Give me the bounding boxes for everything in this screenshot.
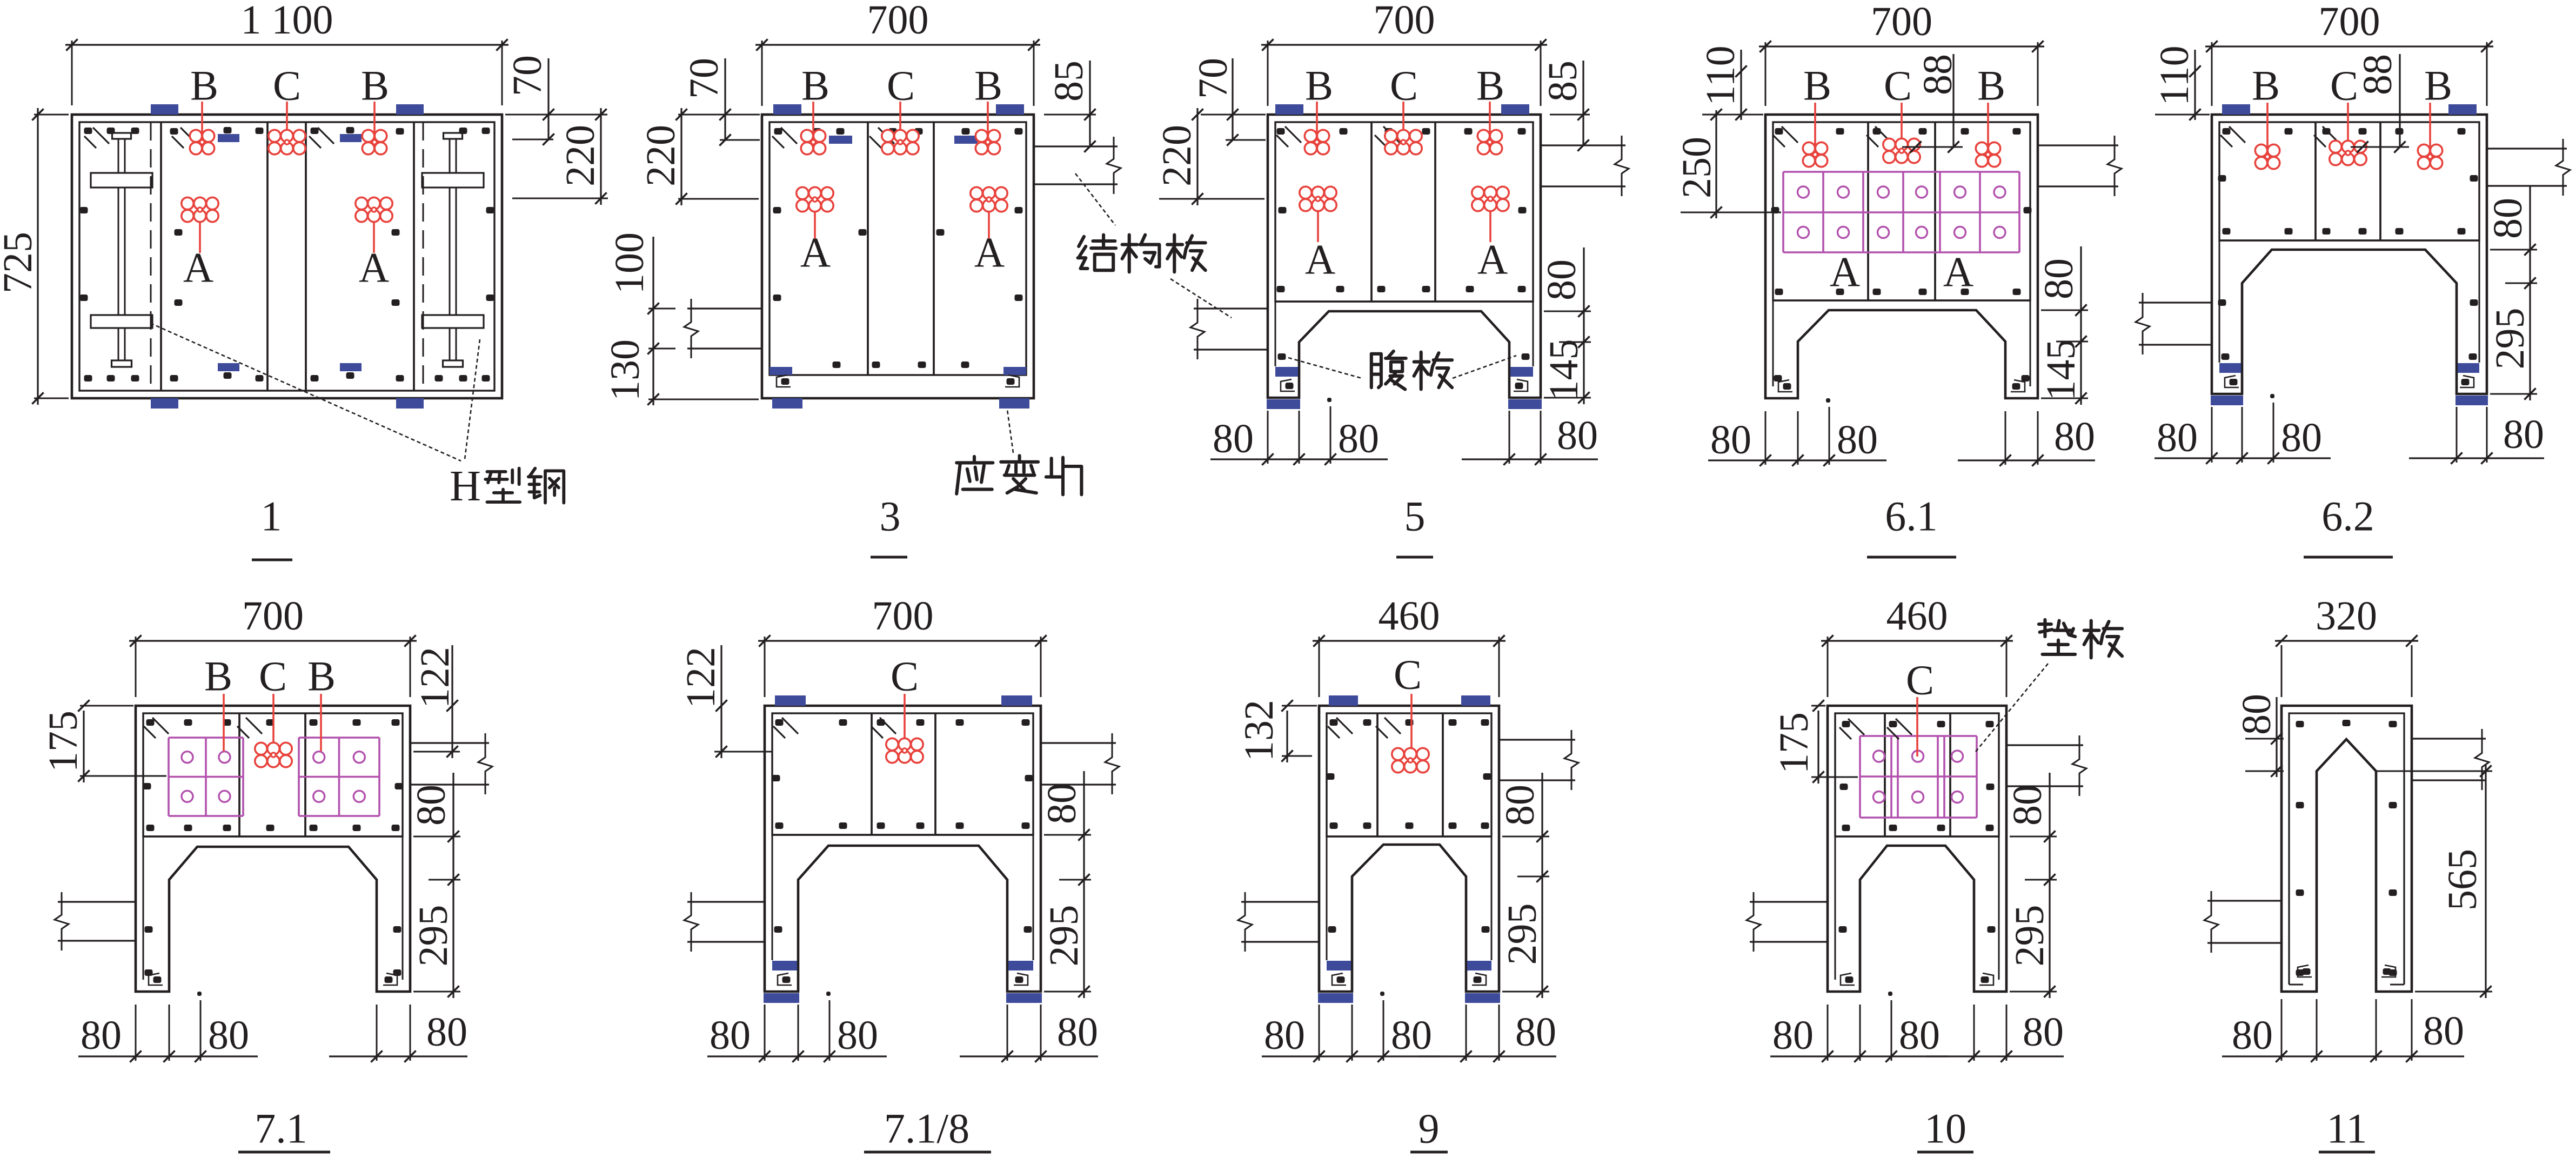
label web plate (腹板) with leaders	[1370, 354, 1373, 387]
section 9: leg rebar hooks	[1332, 973, 1346, 985]
section 1: top dimension 1 100	[71, 41, 73, 105]
svg-text:10: 10	[1924, 1105, 1966, 1152]
section 7.1/8: left structural plate stub	[687, 901, 765, 902]
svg-text:A: A	[183, 244, 213, 291]
section 5: right structural plate stub	[1541, 144, 1625, 146]
section 3: bottom corner pads with hooks	[770, 367, 792, 375]
section 11: left structural plate stub	[2207, 900, 2281, 901]
svg-text:80: 80	[2023, 1009, 2064, 1055]
svg-text:565: 565	[2440, 849, 2485, 911]
section 9: inner rectangle	[1327, 713, 1491, 836]
section 1: right dimension 220	[512, 198, 608, 199]
section 5: left dimension 220	[1159, 198, 1264, 200]
svg-text:B: B	[204, 653, 232, 700]
section 7.1: right dimension 122	[413, 751, 460, 753]
svg-text:700: 700	[872, 593, 934, 639]
svg-text:80: 80	[81, 1013, 122, 1058]
section 5: right dimension 145	[1544, 397, 1591, 399]
section 7.1/8: leg inner offset lines	[772, 835, 773, 960]
section 9: rebar dots	[1330, 719, 1338, 726]
section 6.2: right structural plate stub	[2487, 148, 2567, 149]
svg-text:B: B	[1476, 62, 1504, 109]
svg-text:70: 70	[681, 58, 727, 99]
section 1: rebar dots	[84, 128, 92, 134]
svg-text:700: 700	[242, 593, 304, 639]
section 3: outer rectangle	[762, 115, 1034, 398]
section 3: rosette B left	[812, 102, 814, 142]
svg-text:B: B	[190, 62, 218, 109]
section 6.1: bottom dimension 80 labels	[1708, 459, 1886, 461]
section 10: corner slash ticks	[1848, 719, 1864, 735]
section 1: H-beam left	[112, 133, 131, 139]
section 6.1: left dimension 250	[1681, 212, 1781, 213]
section 11: top dimension 320	[2281, 645, 2283, 697]
section 11: outer U outline with pointed arch	[2281, 706, 2412, 992]
section 7.1/8: bottom extension lines	[764, 1005, 766, 1061]
svg-text:80: 80	[2485, 198, 2531, 239]
svg-text:80: 80	[2054, 414, 2095, 459]
svg-text:295: 295	[2007, 905, 2052, 967]
section 6.1: backing plate grid (magenta)	[1782, 172, 1784, 252]
svg-text:110: 110	[1698, 45, 1743, 105]
section 1: strain rosette C	[286, 102, 288, 142]
section 7.1: bottom dimension 80 labels	[78, 1055, 258, 1057]
section 7.1/8: top dimension 700	[764, 637, 766, 697]
section 5: top dimension 700	[1267, 41, 1269, 106]
svg-text:220: 220	[638, 125, 684, 186]
svg-text:C: C	[1390, 62, 1418, 109]
section 10: backing plate grid 3x2 (magenta)	[1859, 736, 1861, 818]
svg-text:B: B	[801, 62, 829, 109]
svg-text:250: 250	[1674, 137, 1719, 198]
section 6.1: rosette B left	[1814, 103, 1816, 155]
svg-text:A: A	[800, 229, 831, 276]
label strain gauge (应变片) with leader	[973, 457, 976, 461]
svg-text:80: 80	[1338, 416, 1379, 461]
section 3: inner small pads	[829, 136, 852, 144]
svg-text:70: 70	[1190, 58, 1236, 99]
section 7.1: rebar dots	[146, 719, 155, 726]
svg-text:B: B	[2252, 62, 2280, 109]
svg-text:80: 80	[1837, 417, 1878, 463]
section 6.1: left dimension 110	[1702, 114, 1763, 116]
section 9: rosette C	[1410, 694, 1413, 760]
section 5: rosette B right	[1489, 102, 1491, 142]
section 5: bottom extension lines	[1267, 411, 1269, 464]
svg-text:295: 295	[2487, 308, 2533, 370]
section 3: cell dividers	[867, 122, 869, 375]
svg-text:9: 9	[1419, 1105, 1440, 1152]
section 7.1/8: slab bottom line	[772, 834, 1033, 835]
section 3: left dimensions 100 and 130	[652, 237, 654, 405]
svg-text:460: 460	[1379, 593, 1440, 639]
section 6.1: rosette C	[1901, 103, 1903, 151]
svg-text:132: 132	[1236, 700, 1282, 761]
section 5: left structural plate stub	[1194, 307, 1268, 309]
section 6.1: corner slash ticks	[1782, 126, 1798, 143]
section 10: bottom extension lines	[1827, 1005, 1829, 1061]
section 1: left dimension 725	[34, 114, 69, 116]
section 6.2: slab bottom line	[2219, 239, 2479, 241]
section 11: right structural plate stub	[2412, 738, 2486, 739]
section 9: bottom extension lines	[1319, 1005, 1320, 1061]
section 11: bottom extension lines	[2281, 999, 2283, 1061]
section 7.1: top dimension 700	[135, 637, 137, 697]
svg-text:B: B	[2424, 62, 2452, 109]
section 3: left dimension 220	[678, 198, 759, 200]
svg-text:7.1: 7.1	[255, 1105, 307, 1152]
section 11: leg rebar hooks	[2298, 965, 2312, 977]
section 6.1: right dimension 145	[2041, 398, 2088, 399]
svg-text:80: 80	[1391, 1013, 1432, 1058]
section 7.1/8: right dimension 295	[1044, 991, 1091, 993]
section 7.1: right dimension 80	[413, 836, 460, 838]
section 7.1: right structural plate stub	[410, 742, 489, 744]
section 3: top bearing pads	[773, 104, 801, 115]
svg-text:100: 100	[607, 232, 652, 294]
section 7.1/8: left dimension 122	[714, 751, 772, 753]
svg-text:5: 5	[1404, 493, 1426, 540]
svg-text:A: A	[1830, 249, 1860, 296]
svg-text:6.2: 6.2	[2321, 493, 2374, 540]
section 7.1: rosette C	[272, 694, 275, 755]
svg-text:80: 80	[1710, 417, 1751, 463]
section 7.1: right dimension 295	[413, 991, 460, 993]
section 7.1: corner slash ticks	[152, 718, 169, 734]
svg-text:B: B	[307, 653, 336, 700]
section 3: right structural plate stub	[1034, 145, 1118, 147]
svg-text:80: 80	[2036, 258, 2082, 299]
svg-text:145: 145	[2038, 339, 2084, 401]
section 6.2: dimension 88 to rosette C	[2399, 54, 2400, 147]
svg-text:295: 295	[411, 905, 456, 967]
svg-text:C: C	[2330, 62, 2358, 109]
svg-text:700: 700	[1871, 0, 1932, 44]
svg-text:A: A	[1305, 236, 1335, 283]
section 9: leg bearing pads	[1327, 961, 1351, 970]
section 1: slab cell divider lines	[160, 122, 162, 391]
section 6.2: leg inner offset lines	[2219, 240, 2220, 363]
section 3: corner slash ticks	[781, 128, 797, 144]
section 7.1: outer U outline	[136, 706, 410, 992]
section 7.1/8: rebar dots	[775, 719, 784, 726]
svg-text:C: C	[273, 62, 301, 109]
section 1: inner rectangle	[79, 122, 494, 391]
section 6.2: rosette B left	[2266, 103, 2269, 157]
section 7.1/8: outer U outline	[765, 706, 1041, 992]
section 7.1: bottom extension lines	[135, 1005, 137, 1061]
section 1: bottom bearing pads	[151, 398, 178, 409]
section 9: corner slash ticks	[1336, 718, 1353, 734]
svg-text:C: C	[891, 653, 919, 700]
svg-text:220: 220	[1154, 125, 1200, 186]
section 6.1: inner rectangle	[1773, 122, 2030, 300]
section 6.1: outer U outline	[1765, 115, 2038, 398]
section 11: right dimension 565	[2376, 771, 2492, 772]
section 3: left dimension 70	[678, 114, 760, 116]
section 9: bottom dimension 80 labels	[1262, 1055, 1441, 1057]
svg-text:220: 220	[558, 125, 603, 186]
section 3: right dimension 85	[1044, 114, 1096, 116]
svg-text:C: C	[1906, 657, 1934, 704]
svg-text:80: 80	[1497, 785, 1543, 826]
section 5: rebar dots	[1277, 128, 1285, 135]
svg-text:80: 80	[2423, 1008, 2464, 1054]
svg-text:700: 700	[867, 0, 929, 43]
section 7.1/8: rosette C	[904, 694, 906, 751]
section 6.1: slab bottom line	[1773, 299, 2030, 301]
section 5: right dimension 85	[1550, 114, 1590, 116]
section 9: right dimension 295	[1502, 991, 1549, 993]
section 9: top dimension 460	[1319, 637, 1320, 697]
section 5: outer U outline	[1268, 115, 1541, 398]
section 6.2: outer U outline	[2212, 115, 2487, 394]
svg-text:80: 80	[2234, 694, 2279, 735]
section 1: strain rosette A left	[199, 210, 201, 253]
svg-text:A: A	[1477, 236, 1508, 283]
svg-text:110: 110	[2152, 45, 2197, 105]
svg-text:122: 122	[678, 647, 724, 708]
section 6.2: inner rectangle	[2219, 122, 2479, 240]
section 5: slab bottom line	[1275, 300, 1533, 302]
section 7.1: left dimension 175	[80, 705, 133, 707]
svg-text:88: 88	[2355, 54, 2400, 95]
section 1: strain rosette B left	[201, 102, 203, 142]
section 5: leg inner offset lines	[1275, 302, 1276, 366]
section 6.2: rosette C	[2347, 103, 2349, 153]
svg-text:80: 80	[2281, 415, 2322, 460]
svg-text:80: 80	[208, 1013, 249, 1058]
section 3: top dimension 700	[761, 41, 763, 106]
section 7.1: leg inner offset lines	[143, 836, 144, 980]
section 10: outer U outline	[1828, 706, 2006, 992]
section 9: outer U outline	[1319, 706, 1499, 992]
section 5: right dimension 80	[1544, 311, 1591, 312]
section 10: right dimension 295	[2010, 991, 2057, 993]
section 10: leg inner offset lines	[1835, 836, 1836, 980]
svg-text:80: 80	[409, 785, 454, 826]
svg-text:80: 80	[710, 1013, 751, 1058]
svg-text:C: C	[1884, 62, 1912, 109]
svg-text:80: 80	[426, 1009, 467, 1055]
section 10: right structural plate stub	[2006, 744, 2083, 746]
svg-text:C: C	[259, 653, 287, 700]
svg-text:80: 80	[1264, 1013, 1305, 1058]
section 7.1: inner rectangle	[143, 713, 403, 836]
section 10: slab bottom line	[1835, 835, 1999, 837]
section 6.2: corner slash ticks	[2229, 126, 2245, 143]
section 7.1/8: cell dividers	[871, 713, 873, 835]
svg-text:295: 295	[1500, 903, 1545, 965]
svg-text:85: 85	[1540, 61, 1585, 102]
section 10: bottom dimension 80 labels	[1770, 1055, 1949, 1057]
svg-text:B: B	[974, 62, 1002, 109]
section 9: cell dividers	[1376, 713, 1379, 836]
section 1: top bearing pads	[151, 104, 178, 115]
section 6.2: left dimension 110	[2155, 114, 2210, 116]
section 9: leg inner offset lines	[1326, 836, 1328, 960]
section 6.2: leg rebar hooks	[2225, 376, 2239, 387]
svg-text:320: 320	[2316, 593, 2377, 639]
section 3: inner rectangle	[770, 122, 1026, 375]
section 5: leg rebar hooks	[1281, 379, 1295, 391]
section 7.1: backing plate grids 2x2 (magenta)	[168, 738, 170, 816]
section 10: inner rectangle	[1835, 713, 1999, 836]
svg-text:80: 80	[1515, 1009, 1556, 1055]
svg-text:B: B	[1305, 62, 1333, 109]
section 3: rosette C	[899, 102, 901, 142]
section 9: slab bottom line	[1327, 835, 1491, 837]
section 3: rosette A left	[814, 199, 816, 242]
section 10: rebar dots	[1842, 721, 1850, 727]
section 6.2: bottom dimension 80 labels	[2155, 457, 2331, 459]
section 6.1: dimension 88 to rosette C	[1952, 54, 1954, 147]
svg-text:80: 80	[1772, 1013, 1814, 1058]
svg-text:C: C	[1394, 651, 1422, 698]
section 6.1: cell dividers	[1867, 122, 1869, 300]
section 6.1: leg inner offset lines	[1772, 300, 1774, 386]
section 7.1/8: inner rectangle	[772, 713, 1033, 835]
section 7.1/8: leg rebar hooks	[778, 973, 792, 985]
section 10: cell dividers	[1884, 713, 1886, 836]
section 5: rosette C	[1402, 102, 1404, 142]
section 10: left structural plate stub	[1750, 901, 1828, 902]
section 6.2: rebar dots	[2223, 128, 2231, 135]
section 6.2: top dimension 700	[2211, 42, 2213, 106]
section 6.1: leg rebar hooks	[1778, 380, 1792, 392]
svg-text:85: 85	[1046, 61, 1092, 102]
section 9: left dimension 132	[1282, 705, 1317, 707]
section 5: left dimension 70	[1201, 114, 1266, 116]
svg-text:A: A	[359, 244, 389, 291]
section 5: top bearing pads	[1275, 104, 1303, 115]
section 6.2: top bearing pads	[2222, 104, 2250, 115]
section 6.2: bottom extension lines	[2211, 407, 2213, 463]
section 6.1: bottom extension lines	[1765, 411, 1767, 465]
section 9: right structural plate stub	[1499, 739, 1575, 740]
svg-text:7.1/8: 7.1/8	[884, 1105, 969, 1152]
section 7.1: red leaders to grid circles	[223, 694, 225, 751]
section 7.1: cell dividers	[238, 713, 240, 836]
section 11: left dimension 80	[2245, 738, 2284, 740]
svg-text:1: 1	[261, 493, 282, 540]
section 7.1/8: bottom dimension 80 labels	[707, 1055, 887, 1057]
svg-text:80: 80	[2503, 412, 2544, 457]
section 11: rebar dots	[2296, 721, 2304, 727]
section 1: inner small pads top	[218, 134, 239, 142]
svg-text:C: C	[887, 62, 915, 109]
svg-text:700: 700	[2319, 0, 2380, 44]
section 6.2: right dimension 295	[2490, 393, 2537, 395]
svg-text:B: B	[361, 62, 389, 109]
svg-text:3: 3	[880, 493, 901, 540]
svg-text:725: 725	[0, 232, 41, 293]
section 3: bottom bearing pads	[772, 398, 802, 409]
section 6.2: left structural plate stub	[2139, 302, 2212, 303]
section 1: corner slash ticks	[93, 128, 109, 144]
svg-text:80: 80	[1899, 1013, 1940, 1058]
svg-text:80: 80	[1539, 259, 1584, 300]
section 1: hidden flange dashed lines	[150, 122, 152, 391]
section 6.1: right dimension 80	[2041, 310, 2088, 311]
section 1: H-beam right	[444, 133, 463, 139]
section 6.1: top dimension 700	[1765, 42, 1767, 106]
section 10: top dimension 460	[1827, 637, 1829, 697]
svg-text:80: 80	[1557, 413, 1598, 458]
section 11: inner border lines	[2289, 713, 2404, 985]
section 6.1: right structural plate stub	[2038, 144, 2118, 146]
section 6.1: rebar dots	[1775, 128, 1783, 135]
section 7.1/8: right structural plate stub	[1041, 742, 1116, 744]
svg-text:6.1: 6.1	[1885, 493, 1938, 540]
section 1: inner small pads bottom	[218, 363, 239, 371]
svg-text:70: 70	[505, 55, 550, 96]
section 7.1: leg rebar hooks	[149, 973, 163, 985]
svg-text:80: 80	[1057, 1009, 1098, 1055]
section 6.2: rosette B right	[2429, 103, 2431, 157]
svg-text:175: 175	[1771, 712, 1817, 774]
svg-text:B: B	[1803, 62, 1831, 109]
svg-text:122: 122	[412, 647, 458, 708]
section 10: right dimension 80	[2010, 836, 2057, 838]
section 7.1/8: leg bearing pads	[772, 961, 797, 970]
section 10: red leader to grid circle	[1916, 697, 1918, 757]
svg-text:H: H	[450, 463, 481, 510]
section 5: rosette A left	[1317, 199, 1319, 242]
svg-text:B: B	[1977, 62, 2005, 109]
svg-text:88: 88	[1915, 54, 1961, 95]
section 3: left structural plate stub	[687, 307, 762, 309]
section 6.2: cell dividers	[2314, 122, 2317, 240]
svg-text:80: 80	[2157, 415, 2198, 460]
svg-text:A: A	[1943, 249, 1973, 296]
section 7.1/8: right dimension 80	[1044, 834, 1091, 836]
svg-text:80: 80	[837, 1013, 878, 1058]
svg-text:80: 80	[2232, 1013, 2273, 1058]
label structural plate (结构板) with leaders	[1079, 237, 1084, 246]
section 1: strain rosette B right	[373, 102, 376, 142]
section 7.1: left structural plate stub	[58, 901, 136, 902]
section 1: strain rosette A right	[373, 210, 375, 253]
section 9: left structural plate stub	[1241, 901, 1319, 902]
section 5: inner rectangle	[1275, 122, 1533, 302]
svg-text:80: 80	[1039, 783, 1085, 824]
section 3: rosette B right	[987, 102, 989, 142]
svg-text:80: 80	[2005, 785, 2050, 826]
svg-text:80: 80	[1213, 416, 1254, 461]
section 5: bottom dimension 80 labels	[1210, 458, 1388, 460]
section 9: top bearing pads	[1329, 695, 1358, 706]
section 1: outer rectangle	[72, 115, 502, 398]
section 5: leg bearing pads	[1275, 367, 1298, 377]
section 6.2: right dimension 80	[2490, 249, 2537, 251]
svg-text:1 100: 1 100	[241, 0, 333, 43]
section 3: rebar dots	[774, 128, 782, 135]
section 7.1/8: corner slash ticks	[782, 718, 798, 734]
section 5: rosette B left	[1316, 102, 1318, 142]
svg-text:700: 700	[1374, 0, 1435, 43]
svg-text:295: 295	[1041, 905, 1087, 967]
section 7.1/8: top bearing pads	[775, 695, 806, 706]
svg-text:460: 460	[1886, 593, 1948, 639]
section 6.2: leg bearing pads	[2219, 363, 2241, 373]
svg-text:130: 130	[603, 339, 648, 401]
section 6.1: rosette B right	[1987, 103, 1989, 155]
section 7.1: slab bottom line	[143, 835, 403, 837]
section 10: leg rebar hooks	[1841, 973, 1855, 985]
svg-text:145: 145	[1541, 339, 1587, 401]
section 11: bottom dimension 80 labels	[2222, 1055, 2464, 1057]
